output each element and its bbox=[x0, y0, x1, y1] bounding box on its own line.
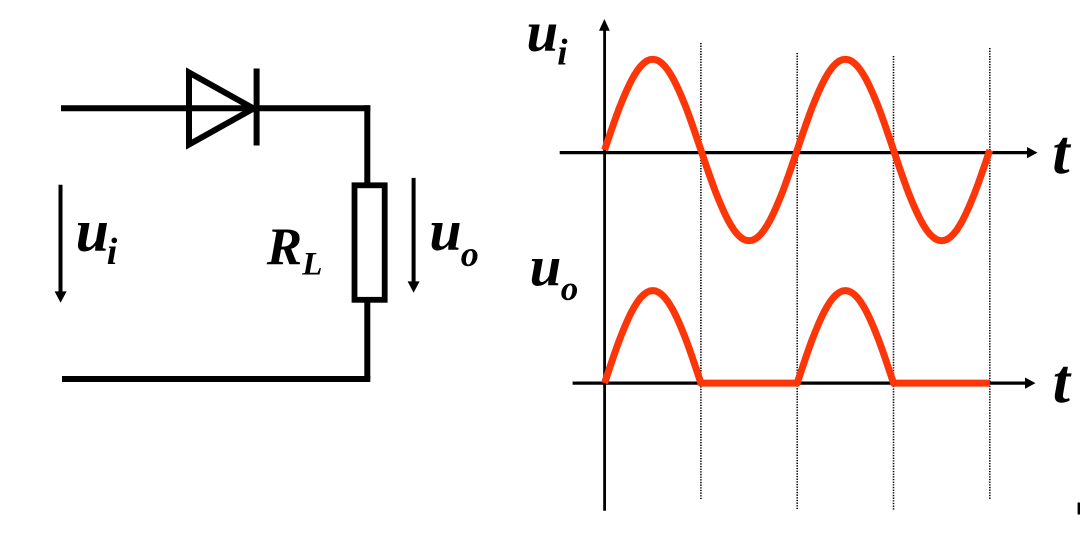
label u_i (upper graph) bbox=[527, 1, 569, 73]
resistor RL body bbox=[355, 185, 385, 299]
label u_i (circuit input voltage) bbox=[76, 198, 118, 273]
wire bottom return segment bbox=[62, 376, 370, 382]
label u_o (lower graph) bbox=[530, 236, 579, 308]
svg-text:t: t bbox=[1053, 348, 1072, 416]
waveform u_i sine bbox=[605, 59, 990, 240]
svg-text:L: L bbox=[301, 246, 322, 282]
label RL (load resistor) bbox=[266, 218, 323, 283]
dotted line T/2 bbox=[700, 43, 702, 499]
svg-text:u: u bbox=[530, 236, 562, 299]
svg-text:i: i bbox=[107, 231, 118, 273]
axis t (upper, u_i graph) bbox=[560, 147, 1038, 158]
partial glyph at right edge bbox=[1078, 503, 1080, 515]
svg-text:R: R bbox=[266, 218, 302, 276]
dotted line T bbox=[796, 53, 798, 509]
dotted line 3T/2 bbox=[893, 56, 895, 511]
svg-text:i: i bbox=[557, 32, 568, 73]
svg-text:t: t bbox=[1052, 119, 1071, 187]
waveform u_o half-wave rectified bbox=[605, 291, 990, 384]
svg-text:u: u bbox=[429, 198, 461, 263]
arrow u_o polarity bbox=[408, 178, 420, 293]
svg-text:o: o bbox=[561, 269, 579, 308]
svg-text:u: u bbox=[527, 1, 559, 64]
diode D1 cathode bar bbox=[254, 69, 260, 146]
arrow u_i polarity bbox=[55, 185, 67, 303]
dotted line 2T bbox=[989, 48, 991, 500]
diode D1 triangle (anode) bbox=[189, 73, 254, 145]
wire top input segment bbox=[61, 105, 370, 111]
wire right vertical (bottom) bbox=[364, 300, 370, 379]
node vertical axis (shared u axis) bbox=[599, 19, 610, 511]
axis t (lower, u_o graph) bbox=[573, 378, 1036, 389]
svg-text:o: o bbox=[461, 234, 479, 274]
svg-text:u: u bbox=[76, 198, 109, 264]
wire right vertical (top) bbox=[364, 105, 370, 185]
label u_o (circuit output voltage) bbox=[429, 198, 478, 274]
